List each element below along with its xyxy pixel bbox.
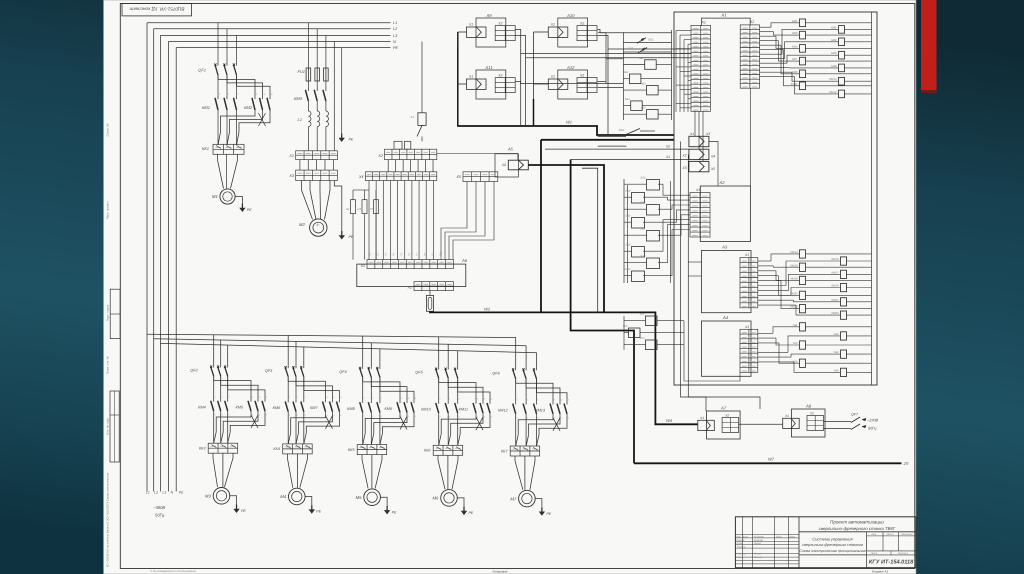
- svg-text:Справ. №: Справ. №: [105, 124, 109, 137]
- svg-text:X1: X1: [468, 23, 473, 27]
- contactor КМ5: [250, 399, 252, 402]
- coil YA5: [800, 359, 806, 367]
- block А11: [476, 70, 506, 99]
- resistors R1-R3: [352, 190, 354, 200]
- svg-text:W7: W7: [768, 457, 775, 462]
- relay coil КМ21: [841, 298, 847, 306]
- PE tap with ground near X1: [341, 48, 343, 134]
- svg-text:X2: X2: [809, 412, 814, 416]
- motor М7: [519, 490, 536, 507]
- thermal relay КК3: [208, 443, 238, 453]
- svg-text:Проект автоматизации: Проект автоматизации: [830, 520, 884, 525]
- svg-text:Х5: Х5: [710, 167, 715, 171]
- svg-text:PE: PE: [241, 509, 246, 513]
- svg-text:КМ1: КМ1: [202, 105, 210, 110]
- wire feed A10/A12: [534, 31, 549, 33]
- svg-text:SB1: SB1: [639, 57, 644, 60]
- svg-text:М6: М6: [433, 496, 439, 501]
- svg-text:сверлильно-фрезерным станком: сверлильно-фрезерным станком: [802, 542, 863, 547]
- svg-text:А6: А6: [461, 258, 468, 263]
- relay coil КМ19: [841, 283, 847, 291]
- A2 terminal strip X1: [690, 193, 710, 238]
- sensor box SQ3: [647, 180, 660, 191]
- svg-text:X2: X2: [579, 74, 584, 78]
- svg-text:R3: R3: [369, 207, 373, 211]
- relay coil КМ17: [841, 270, 847, 278]
- motor М3: [213, 488, 230, 505]
- relay coil КМ14: [800, 250, 806, 258]
- svg-text:X1: X1: [744, 253, 749, 257]
- sensor boxes group 1: [645, 60, 657, 70]
- А12 connector X1: [548, 79, 568, 89]
- svg-text:КК7: КК7: [501, 449, 508, 453]
- svg-text:X2: X2: [407, 286, 412, 290]
- coil YA2: [841, 332, 847, 340]
- svg-text:КМ9: КМ9: [792, 70, 798, 74]
- contactor КМ13: [552, 402, 554, 405]
- svg-text:КМ7: КМ7: [792, 57, 798, 61]
- circuit breaker QF1: [217, 23, 219, 63]
- sensor box SQ10: [632, 271, 645, 282]
- block А9: [476, 18, 506, 47]
- circuit breaker QF5: [438, 337, 440, 367]
- svg-text:А2: А2: [718, 180, 725, 185]
- crossover КМ9: [362, 412, 364, 444]
- svg-text:А10: А10: [566, 13, 575, 18]
- svg-text:X3: X3: [681, 166, 686, 170]
- terminal strip X4: [365, 172, 436, 181]
- relay coil КМ23: [841, 311, 847, 319]
- jumpers QF5 to КМ11: [438, 378, 440, 383]
- ground PE of М7: [535, 499, 542, 508]
- sensor box SQ7: [647, 231, 660, 242]
- svg-text:М3: М3: [205, 494, 211, 499]
- svg-text:КМ5: КМ5: [792, 44, 798, 48]
- svg-text:Т.контр.: Т.контр.: [737, 546, 747, 549]
- svg-text:Лит.: Лит.: [870, 533, 877, 536]
- svg-text:КМ16: КМ16: [790, 263, 798, 267]
- svg-text:SQ10: SQ10: [624, 268, 631, 271]
- wires КК7 to motor М7: [515, 456, 523, 490]
- svg-text:SB4: SB4: [625, 98, 630, 101]
- enclosure box A1: [674, 12, 877, 385]
- svg-text:X1: X1: [700, 20, 705, 24]
- svg-text:А4: А4: [722, 315, 729, 320]
- svg-text:Н.контр.: Н.контр.: [737, 552, 747, 555]
- svg-text:КМ7: КМ7: [310, 406, 318, 410]
- svg-text:А1: А1: [720, 13, 726, 18]
- relay coil КМ16: [800, 263, 806, 271]
- svg-text:КК4: КК4: [273, 447, 280, 451]
- block A4: [702, 321, 752, 376]
- svg-text:L1: L1: [298, 117, 302, 122]
- wires КК4 to motor М4: [288, 454, 293, 488]
- svg-text:SQ3: SQ3: [640, 177, 646, 180]
- A1 bracket: [702, 18, 751, 25]
- svg-text:SQ7: SQ7: [640, 228, 646, 231]
- svg-text:L1: L1: [393, 21, 397, 25]
- bus line N: [168, 41, 390, 43]
- svg-text:N: N: [393, 40, 396, 44]
- svg-text:Система управления: Система управления: [812, 537, 853, 542]
- block A3: [702, 251, 752, 313]
- А7 table X2: [722, 418, 739, 433]
- svg-text:Пров.: Пров.: [737, 542, 743, 545]
- wires from A12 outputs: [598, 81, 606, 83]
- block A6: [357, 264, 466, 287]
- svg-text:SQ9: SQ9: [640, 255, 646, 258]
- svg-text:QF3: QF3: [265, 369, 273, 373]
- svg-text:SQ4: SQ4: [625, 190, 631, 193]
- block A2: [700, 186, 750, 242]
- svg-text:SB3: SB3: [641, 82, 646, 85]
- svg-text:КК3: КК3: [199, 447, 206, 451]
- sensor box SQ9: [647, 258, 660, 269]
- wire X1 to enclosure: [571, 159, 689, 161]
- svg-text:Копировал: Копировал: [493, 569, 508, 573]
- thermal relay КК7: [510, 446, 540, 456]
- svg-text:W2: W2: [484, 307, 491, 312]
- component below A6 X2: [427, 295, 434, 311]
- title block: [735, 517, 916, 568]
- thermal relay КК6: [433, 445, 463, 455]
- sensor box SP2: [629, 328, 641, 338]
- relay coil КМ5: [800, 45, 806, 53]
- relay coil КМ15: [841, 257, 847, 265]
- wires X1 to X3: [299, 160, 301, 171]
- svg-text:КМ10: КМ10: [829, 77, 837, 81]
- sensor wiring collectors: [622, 32, 624, 120]
- svg-text:сверлильно-фрезерного станка Т: сверлильно-фрезерного станка ТВ6Г: [819, 526, 896, 531]
- connector X1-X3: [689, 136, 709, 146]
- svg-text:QF4: QF4: [339, 370, 346, 374]
- svg-text:КМ8: КМ8: [347, 407, 355, 411]
- motor M1: [220, 189, 235, 204]
- wire A5 from X2 to connector X6: [437, 154, 518, 161]
- contactor КМ9: [399, 400, 401, 403]
- svg-text:КМ15: КМ15: [831, 257, 839, 261]
- svg-text:М1: М1: [212, 194, 218, 199]
- parallel thin cable: [582, 168, 598, 312]
- jumpers QF6 to КМ13: [515, 379, 517, 384]
- thermal relay KK1: [213, 144, 244, 154]
- relay coil КМ3: [800, 31, 806, 39]
- А9 table X2: [495, 26, 515, 41]
- fuses FU1: [307, 23, 309, 68]
- svg-text:SQ1: SQ1: [648, 38, 654, 42]
- jumpers QF2 to КМ5: [213, 376, 215, 381]
- contactor КМ11: [475, 401, 477, 404]
- svg-text:Орлов: Орлов: [754, 542, 762, 545]
- ground PE of М5: [380, 497, 387, 506]
- stepped wires into A1.X1: [676, 30, 691, 32]
- svg-text:КМ5: КМ5: [235, 406, 243, 410]
- relay coil КМ8: [839, 64, 845, 72]
- svg-text:КМ11: КМ11: [459, 408, 468, 412]
- coil YA6: [841, 368, 847, 376]
- wire feed A9/A11: [458, 31, 467, 33]
- wires KK1 to motor M1: [218, 154, 224, 188]
- svg-text:SQ8: SQ8: [625, 244, 631, 247]
- red accent bar: [921, 0, 937, 93]
- svg-text:КК6: КК6: [424, 449, 431, 453]
- ground PE of M2: [334, 181, 342, 232]
- sensor box SQ8: [632, 247, 645, 258]
- reactor L1 coils: [307, 101, 309, 111]
- cable W1 bus: [457, 32, 459, 126]
- svg-text:X1: X1: [550, 75, 555, 79]
- circuit breaker QF4: [362, 336, 364, 366]
- svg-text:SB2: SB2: [623, 71, 628, 74]
- А10 table X2: [577, 26, 597, 41]
- svg-text:L1: L1: [146, 491, 150, 495]
- svg-text:КМ12: КМ12: [829, 90, 837, 94]
- svg-text:КГУ ИТ-154.0118: КГУ ИТ-154.0118: [869, 560, 914, 566]
- svg-text:X5: X5: [455, 175, 462, 179]
- ground PE of М3: [230, 496, 237, 505]
- svg-text:QF5: QF5: [415, 371, 423, 375]
- svg-text:КМ23: КМ23: [831, 311, 839, 315]
- contactor КМ8: [362, 400, 364, 403]
- svg-text:Разраб.: Разраб.: [737, 539, 746, 542]
- jumpers QF3 to КМ7: [287, 377, 289, 382]
- svg-text:PE: PE: [469, 511, 474, 515]
- circuit breaker QF6: [515, 337, 517, 367]
- wires X4 down to A6: [368, 181, 370, 260]
- svg-text:PE: PE: [349, 138, 354, 142]
- А8 table X2: [807, 416, 824, 431]
- motor М4: [289, 488, 306, 505]
- A6 terminal strip X2: [414, 282, 453, 291]
- svg-text:КМ21: КМ21: [831, 298, 839, 302]
- jumpers QF1 to KM2: [217, 75, 219, 80]
- svg-text:М5: М5: [356, 495, 362, 500]
- svg-text:SQ5: SQ5: [640, 202, 646, 205]
- svg-text:X1: X1: [699, 416, 704, 420]
- svg-text:YA5: YA5: [792, 359, 798, 363]
- svg-text:М2: М2: [299, 222, 305, 227]
- svg-text:W1: W1: [566, 119, 572, 124]
- relay coil КМ10: [839, 77, 845, 85]
- svg-text:Инв. № подл.: Инв. № подл.: [105, 417, 109, 435]
- relay coil КМ2: [839, 26, 845, 34]
- wires from A9 outputs: [515, 30, 691, 54]
- svg-text:SQ6: SQ6: [625, 215, 631, 218]
- coil YA3: [800, 341, 806, 349]
- bus line L3: [161, 34, 391, 36]
- contactor КМ12: [515, 402, 517, 405]
- svg-text:~380В: ~380В: [153, 505, 165, 510]
- svg-text:X1: X1: [744, 325, 749, 329]
- sensor box SP1: [646, 316, 658, 326]
- relay coil КМ18: [800, 276, 806, 284]
- wires X2 to X4: [387, 160, 389, 172]
- svg-text:W4: W4: [666, 418, 673, 423]
- cable from X6 down mid: [528, 165, 604, 312]
- svg-text:Дата: Дата: [788, 535, 796, 538]
- svg-text:Х1: Х1: [665, 155, 670, 159]
- svg-text:КМ18: КМ18: [790, 277, 798, 281]
- svg-text:YA4: YA4: [833, 350, 839, 354]
- contactor КМ10: [438, 401, 440, 404]
- А11 connector X1: [467, 79, 487, 89]
- A1 terminal strip X1 (tall): [691, 25, 711, 111]
- bus line L2: [154, 28, 391, 30]
- svg-text:А3: А3: [721, 245, 728, 250]
- terminal strip X1: [296, 151, 338, 160]
- svg-text:А5: А5: [507, 146, 514, 151]
- A1 terminal strip X2 (tall): [740, 25, 759, 88]
- svg-text:2П: 2П: [903, 462, 909, 466]
- svg-text:№ докум.: № докум.: [754, 535, 764, 538]
- relay coil КМ22: [800, 305, 806, 313]
- circuit breaker QF3: [287, 335, 289, 365]
- sensor box SQ6: [632, 218, 645, 229]
- svg-text:QF7: QF7: [851, 413, 859, 417]
- svg-text:50Гц: 50Гц: [868, 427, 877, 431]
- motor М6: [441, 490, 458, 507]
- svg-text:КМ2: КМ2: [244, 105, 253, 110]
- svg-text:SP2: SP2: [623, 325, 628, 328]
- cable riser to W7: [571, 160, 634, 464]
- svg-text:50Гц: 50Гц: [155, 513, 165, 518]
- svg-text:КМ6: КМ6: [273, 406, 281, 410]
- reversing crossover wiring: [217, 110, 219, 145]
- svg-text:YA3: YA3: [792, 341, 798, 345]
- svg-text:Х4: Х4: [710, 155, 715, 159]
- svg-text:R1: R1: [346, 207, 350, 211]
- svg-text:X2: X2: [749, 20, 754, 24]
- svg-text:КМ2: КМ2: [831, 25, 837, 29]
- svg-text:КК1: КК1: [202, 146, 209, 151]
- relay coil КМ7: [800, 57, 806, 65]
- svg-text:КМ3: КМ3: [792, 31, 798, 35]
- svg-text:X1: X1: [784, 414, 789, 418]
- svg-text:X2: X2: [497, 74, 502, 78]
- А8 connector X1: [783, 418, 800, 428]
- svg-text:SP3: SP3: [640, 337, 645, 340]
- svg-text:X1: X1: [360, 264, 365, 268]
- svg-text:QF1: QF1: [198, 68, 206, 73]
- svg-text:X2: X2: [579, 22, 584, 26]
- wire A7 to A8: [739, 423, 783, 425]
- svg-text:Иванов: Иванов: [754, 556, 763, 559]
- title block left columns: [742, 517, 744, 568]
- svg-text:КМ9: КМ9: [384, 407, 392, 411]
- svg-text:КМ3: КМ3: [294, 96, 303, 101]
- bus line PE: [176, 47, 390, 49]
- crossover КМ11: [438, 413, 440, 445]
- svg-text:Х2: Х2: [665, 145, 670, 149]
- svg-text:Листов 1: Листов 1: [897, 552, 909, 555]
- motor М5: [364, 489, 381, 506]
- ground PE of М4: [305, 497, 312, 506]
- svg-text:PE: PE: [393, 46, 399, 50]
- coil YA1: [800, 323, 806, 331]
- A3 terminal strip X1: [740, 258, 758, 308]
- contactor КМ4: [213, 399, 215, 402]
- power block А7: [707, 411, 741, 439]
- wires into A3 left: [688, 261, 701, 263]
- block А10: [558, 18, 588, 47]
- bus line L1: [147, 22, 391, 24]
- svg-text:А12: А12: [566, 65, 575, 70]
- svg-text:А8: А8: [805, 404, 812, 409]
- svg-text:Х3: Х3: [705, 132, 710, 136]
- cable W2: [430, 311, 541, 312]
- svg-text:КМ4: КМ4: [831, 38, 837, 42]
- svg-text:L3: L3: [162, 491, 166, 495]
- svg-text:YA1: YA1: [792, 323, 798, 327]
- sensor box SQ5: [647, 205, 660, 216]
- switch QF7 and 220V output: [824, 421, 852, 423]
- А10 connector X1: [548, 27, 568, 37]
- title block right cells: [866, 532, 868, 568]
- svg-text:Масса: Масса: [886, 533, 894, 536]
- svg-text:PE: PE: [316, 510, 321, 514]
- svg-text:М4: М4: [280, 494, 286, 499]
- top-left stamp box: [122, 4, 192, 16]
- svg-text:X1: X1: [695, 188, 700, 192]
- svg-text:X3: X3: [288, 174, 295, 178]
- svg-text:Подп. и дата: Подп. и дата: [105, 304, 109, 321]
- wires connectors onward: [709, 142, 718, 187]
- А9 connector X1: [467, 27, 487, 37]
- wires КК6 to motor М6: [438, 455, 445, 489]
- svg-text:3~: 3~: [316, 223, 320, 227]
- svg-text:© Не коммерческое использовани: © Не коммерческое использование: [150, 569, 196, 573]
- thermal relay КК5: [357, 445, 387, 455]
- svg-text:QF2: QF2: [190, 369, 198, 373]
- wires down to power blocks: [681, 142, 707, 412]
- svg-text:А11: А11: [484, 65, 492, 70]
- svg-text:К1: К1: [411, 115, 415, 119]
- ground PE of М6: [457, 498, 464, 507]
- white schematic sheet: [104, 0, 917, 574]
- terminal strip X5: [463, 172, 498, 182]
- svg-text:КМ10: КМ10: [421, 408, 432, 412]
- svg-text:Формат А1: Формат А1: [872, 569, 889, 573]
- svg-text:Схема электрическая принципиал: Схема электрическая принципиальная: [799, 549, 865, 553]
- group3 wires to A4: [684, 321, 740, 381]
- ground PE of M1: [235, 197, 242, 204]
- svg-text:X1: X1: [550, 23, 555, 27]
- block А12: [558, 70, 588, 99]
- limit switch SQ low: [598, 136, 626, 138]
- relay coil КМ6: [839, 51, 845, 59]
- coil YA4: [841, 350, 847, 358]
- block A5 outline: [495, 154, 518, 177]
- limit switch SQ1: [623, 41, 671, 43]
- svg-text:Подп.: Подп.: [776, 535, 782, 538]
- sensor box SQ4: [632, 193, 645, 204]
- svg-text:Ковалёв: Ковалёв: [754, 539, 764, 542]
- svg-text:YA6: YA6: [833, 368, 839, 372]
- svg-text:X4: X4: [358, 175, 364, 179]
- svg-text:SB5: SB5: [641, 107, 646, 110]
- terminal strip X3: [296, 170, 338, 180]
- connector X2-X4: [689, 149, 709, 159]
- terminal strip X2: [385, 149, 437, 159]
- А11 table X2: [495, 78, 515, 93]
- wires X5 down to A6: [441, 182, 467, 260]
- svg-text:L2: L2: [154, 491, 158, 495]
- cable to W4: [541, 312, 698, 424]
- crossover КМ7: [287, 412, 289, 444]
- jumpers QF4 to КМ9: [362, 377, 364, 382]
- wire X2 to enclosure: [545, 148, 689, 150]
- svg-text:КМ8: КМ8: [831, 64, 837, 68]
